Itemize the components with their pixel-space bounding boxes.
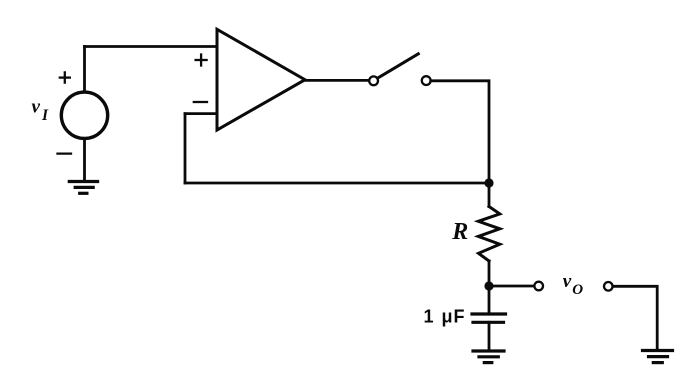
- wire source top vertical: [83, 47, 86, 93]
- wire node B down to capacitor: [488, 286, 491, 314]
- wire capacitor to ground: [488, 322, 491, 350]
- wire switch to node A: [431, 81, 489, 183]
- ground right: [643, 351, 673, 363]
- wire node A down to resistor: [488, 183, 491, 207]
- svg-text:O: O: [572, 282, 583, 298]
- wire source bottom vertical: [83, 139, 86, 180]
- capacitor C1 top plate: [472, 312, 506, 315]
- wire resistor to node B: [488, 261, 491, 286]
- svg-text:v: v: [563, 271, 572, 292]
- switch S1 arm: [378, 54, 419, 78]
- ground below source: [69, 182, 97, 194]
- capacitor C1 bottom plate: [473, 321, 504, 324]
- resistor R zigzag: [478, 207, 500, 262]
- switch S1 pole contact circle: [369, 76, 378, 85]
- terminal circle right of vO: [604, 282, 613, 291]
- svg-text:v: v: [32, 96, 41, 117]
- ground below capacitor: [473, 351, 504, 363]
- wire node B right to output terminal: [489, 285, 534, 288]
- + polarity sign of source: [60, 72, 70, 82]
- wire op-amp output: [305, 79, 369, 82]
- wire right terminal to right ground: [613, 286, 657, 350]
- svg-text:1: 1: [424, 307, 434, 327]
- op-amp U1 triangle: [217, 29, 305, 130]
- node A junction dot: [484, 178, 493, 187]
- op-amp - input sign: [194, 101, 207, 103]
- op-amp + input sign: [196, 55, 207, 66]
- output terminal circle vO: [534, 282, 543, 291]
- wire feedback vertical: [184, 114, 187, 183]
- svg-text:R: R: [451, 219, 468, 245]
- voltage source VI circle: [61, 92, 107, 138]
- svg-text:I: I: [41, 107, 49, 124]
- svg-text:μF: μF: [442, 307, 466, 327]
- wire feedback horizontal: [185, 182, 489, 185]
- wire top horizontal from source to op-amp + input: [85, 45, 218, 48]
- switch S1 throw contact circle: [422, 76, 431, 85]
- node B junction dot: [484, 281, 493, 290]
- wire op-amp inverting input: [185, 112, 217, 115]
- - polarity sign of source: [58, 152, 72, 154]
